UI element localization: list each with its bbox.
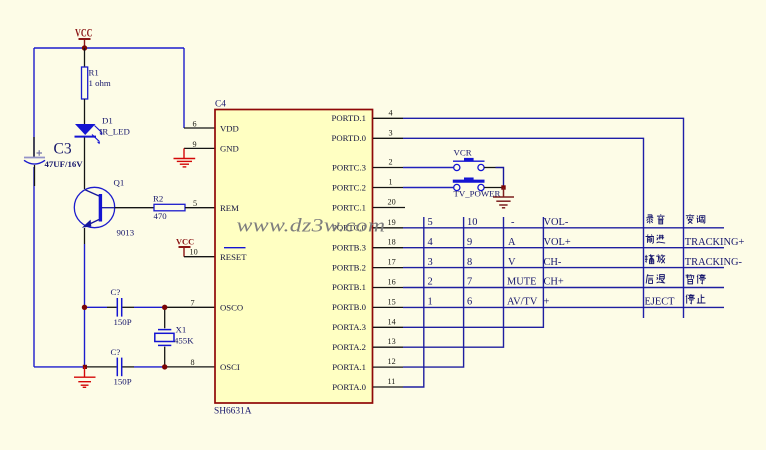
svg-text:2: 2 <box>428 277 433 288</box>
pin 19 stub <box>373 227 403 229</box>
pin 11 stub <box>373 386 403 388</box>
svg-text:1: 1 <box>428 297 433 308</box>
svg-text:PORTC.1: PORTC.1 <box>332 202 366 212</box>
label 暂停 <box>686 274 695 283</box>
pin OSCO stub <box>165 306 215 308</box>
capacitor C3 (electrolytic on rail) <box>24 137 83 186</box>
svg-text:PORTD.0: PORTD.0 <box>332 133 367 143</box>
svg-text:6: 6 <box>467 297 472 308</box>
svg-text:19: 19 <box>388 218 396 227</box>
svg-text:PORTA.1: PORTA.1 <box>332 362 366 372</box>
svg-text:PORTC.2: PORTC.2 <box>332 182 366 192</box>
svg-text:3: 3 <box>389 128 393 137</box>
svg-text:MUTE: MUTE <box>507 277 536 288</box>
node junction ground rail / OSCI row (square) <box>83 365 87 369</box>
svg-text:13: 13 <box>388 337 396 346</box>
svg-text:47UF/16V: 47UF/16V <box>45 159 84 169</box>
svg-text:11: 11 <box>388 377 396 386</box>
matrix key labels column D <box>544 217 571 308</box>
pin 16 stub <box>373 287 403 289</box>
pin 3 stub <box>373 137 403 139</box>
wire VCR to ground node <box>496 168 504 188</box>
svg-text:4: 4 <box>389 108 393 117</box>
wire Q1 emitter down <box>84 228 86 244</box>
power VCC (top left) <box>75 28 92 47</box>
wire row 18 <box>403 247 724 249</box>
node junction emitter rail / OSCO row <box>82 305 87 310</box>
pin 12 stub <box>373 366 403 368</box>
svg-text:7: 7 <box>467 277 472 288</box>
ground at TV_POWER <box>493 188 514 208</box>
op-amp body: main IC rectangle <box>215 110 373 404</box>
svg-text:1: 1 <box>389 178 393 187</box>
switch TV_POWER (pushbutton) <box>453 178 504 199</box>
svg-text:TRACKING+: TRACKING+ <box>685 237 745 248</box>
wire left vertical rail (lower, from C3 to bottom) <box>33 167 35 367</box>
pin 1 stub <box>373 187 403 189</box>
wire row 13 to column C <box>403 217 504 347</box>
svg-text:GND: GND <box>220 144 239 154</box>
pin 15 stub <box>373 306 403 308</box>
wire left vertical rail (upper, to C3) <box>33 48 35 157</box>
wire row 15 <box>403 306 724 308</box>
svg-text:PORTA.3: PORTA.3 <box>332 322 366 332</box>
wire bottom horizontal to ground node <box>34 366 85 368</box>
svg-text:8: 8 <box>467 257 472 268</box>
svg-text:C3: C3 <box>54 141 72 158</box>
svg-text:REM: REM <box>220 203 239 213</box>
transistor Q1 <box>74 178 134 238</box>
svg-text:9: 9 <box>467 237 472 248</box>
svg-text:PORTC.3: PORTC.3 <box>332 162 366 172</box>
svg-text:15: 15 <box>388 297 396 306</box>
svg-text:12: 12 <box>388 357 396 366</box>
matrix key labels column A <box>428 217 434 308</box>
svg-text:VOL+: VOL+ <box>544 237 571 248</box>
svg-text:2: 2 <box>389 158 393 167</box>
resistor R2 <box>115 194 215 221</box>
label 变调 <box>686 214 694 223</box>
wire pin2 to VCR button <box>403 167 454 169</box>
wire pin3 to column E <box>403 138 644 318</box>
svg-text:-: - <box>511 217 515 228</box>
label 停止 <box>686 294 694 304</box>
wire row 11 to column A <box>403 217 424 387</box>
pin 17 stub <box>373 267 403 269</box>
svg-text:6: 6 <box>193 120 197 129</box>
pin 13 stub <box>373 346 403 348</box>
svg-text:VCC: VCC <box>176 238 194 247</box>
svg-text:17: 17 <box>388 258 396 267</box>
pin 18 stub <box>373 247 403 249</box>
label 前进 <box>646 234 654 243</box>
ground at GND pin <box>174 148 196 167</box>
svg-text:D1: D1 <box>102 116 113 126</box>
oscillator network: capacitor C? (top 150P) <box>85 287 165 327</box>
svg-text:SH6631A: SH6631A <box>214 407 252 417</box>
svg-text:10: 10 <box>467 217 477 228</box>
svg-text:C?: C? <box>111 347 121 357</box>
pin 2 stub <box>373 167 403 169</box>
pin RESET stub <box>184 256 215 258</box>
svg-text:C?: C? <box>111 287 121 297</box>
wire row 14 to column D <box>403 217 543 327</box>
svg-text:9: 9 <box>193 140 197 149</box>
svg-text:8: 8 <box>191 358 195 367</box>
svg-text:V: V <box>508 257 516 268</box>
svg-text:+: + <box>544 297 550 308</box>
svg-text:RESET: RESET <box>220 252 247 262</box>
pin OSCI stub <box>165 366 215 368</box>
pin 20 stub <box>373 207 405 209</box>
matrix key labels column B <box>467 217 477 308</box>
svg-text:10: 10 <box>190 248 198 257</box>
label 录音 <box>646 215 653 224</box>
node junction X1 top <box>162 305 167 310</box>
pin VDD stub <box>184 127 215 129</box>
svg-text:455K: 455K <box>174 335 194 345</box>
svg-text:14: 14 <box>388 317 396 326</box>
capacitor C? (bottom 150P) <box>87 347 165 387</box>
pin 4 stub <box>373 117 403 119</box>
label 播放 <box>645 254 654 263</box>
wire top horizontal VCC rail <box>34 47 184 49</box>
svg-text:20: 20 <box>388 198 396 207</box>
switch VCR (pushbutton) <box>453 148 496 171</box>
wire pin1 to TV_POWER button <box>403 187 454 189</box>
svg-text:OSCI: OSCI <box>220 362 240 372</box>
wire LED cathode to Q1 collector <box>84 138 86 190</box>
diode D1 IR_LED <box>75 116 130 145</box>
svg-text:R1: R1 <box>89 68 99 78</box>
label 后退 <box>646 274 653 283</box>
svg-text:7: 7 <box>191 299 195 308</box>
wire vertical drop to VDD pin <box>183 48 185 128</box>
svg-text:PORTB.3: PORTB.3 <box>332 242 366 252</box>
svg-text:3: 3 <box>428 257 433 268</box>
svg-text:5: 5 <box>428 217 433 228</box>
svg-text:VDD: VDD <box>220 123 239 133</box>
pin 14 stub <box>373 326 403 328</box>
svg-text:VCR: VCR <box>454 148 472 158</box>
svg-text:PORTA.0: PORTA.0 <box>332 382 366 392</box>
svg-text:A: A <box>508 237 516 248</box>
matrix key labels column C <box>507 217 538 308</box>
svg-text:CH-: CH- <box>544 257 562 268</box>
svg-text:www.dz3w.com: www.dz3w.com <box>237 215 386 236</box>
svg-text:VOL-: VOL- <box>544 217 569 228</box>
svg-text:C4: C4 <box>215 100 226 110</box>
svg-text:PORTA.2: PORTA.2 <box>332 342 366 352</box>
svg-text:PORTB.2: PORTB.2 <box>332 262 366 272</box>
svg-text:AV/TV: AV/TV <box>507 297 538 308</box>
crystal X1 455K <box>155 307 194 367</box>
svg-text:9013: 9013 <box>117 228 135 238</box>
svg-text:IR_LED: IR_LED <box>100 127 130 137</box>
svg-text:PORTB.1: PORTB.1 <box>332 282 366 292</box>
svg-text:TRACKING-: TRACKING- <box>685 257 743 268</box>
svg-text:R2: R2 <box>153 194 163 204</box>
svg-text:470: 470 <box>154 211 168 221</box>
ground at bottom rail <box>74 367 96 387</box>
svg-text:EJECT: EJECT <box>645 297 676 308</box>
svg-text:150P: 150P <box>114 377 132 387</box>
svg-text:OSCO: OSCO <box>220 303 243 313</box>
node junction at TV_POWER right (square) <box>501 185 505 189</box>
node junction X1 bottom <box>162 364 167 369</box>
svg-text:4: 4 <box>428 237 434 248</box>
pin GND stub <box>184 147 215 149</box>
svg-text:Q1: Q1 <box>114 178 125 188</box>
resistor R1 <box>82 48 111 124</box>
wire row 19 <box>403 227 724 229</box>
svg-text:18: 18 <box>388 238 396 247</box>
svg-text:PORTD.1: PORTD.1 <box>332 113 366 123</box>
svg-text:1 ohm: 1 ohm <box>89 78 111 88</box>
svg-text:16: 16 <box>388 278 396 287</box>
svg-text:CH+: CH+ <box>544 277 564 288</box>
wire row 12 to column B <box>403 217 464 367</box>
svg-text:PORTB.0: PORTB.0 <box>332 302 367 312</box>
node junction at VCC rail <box>82 45 87 50</box>
wire row 17 <box>403 267 724 269</box>
svg-text:150P: 150P <box>114 317 132 327</box>
wire pin4 to column F <box>403 118 684 318</box>
svg-text:X1: X1 <box>176 325 187 335</box>
svg-text:5: 5 <box>193 199 197 208</box>
power VCC (at RESET pin 10) <box>176 238 194 257</box>
wire row 16 <box>403 287 724 289</box>
